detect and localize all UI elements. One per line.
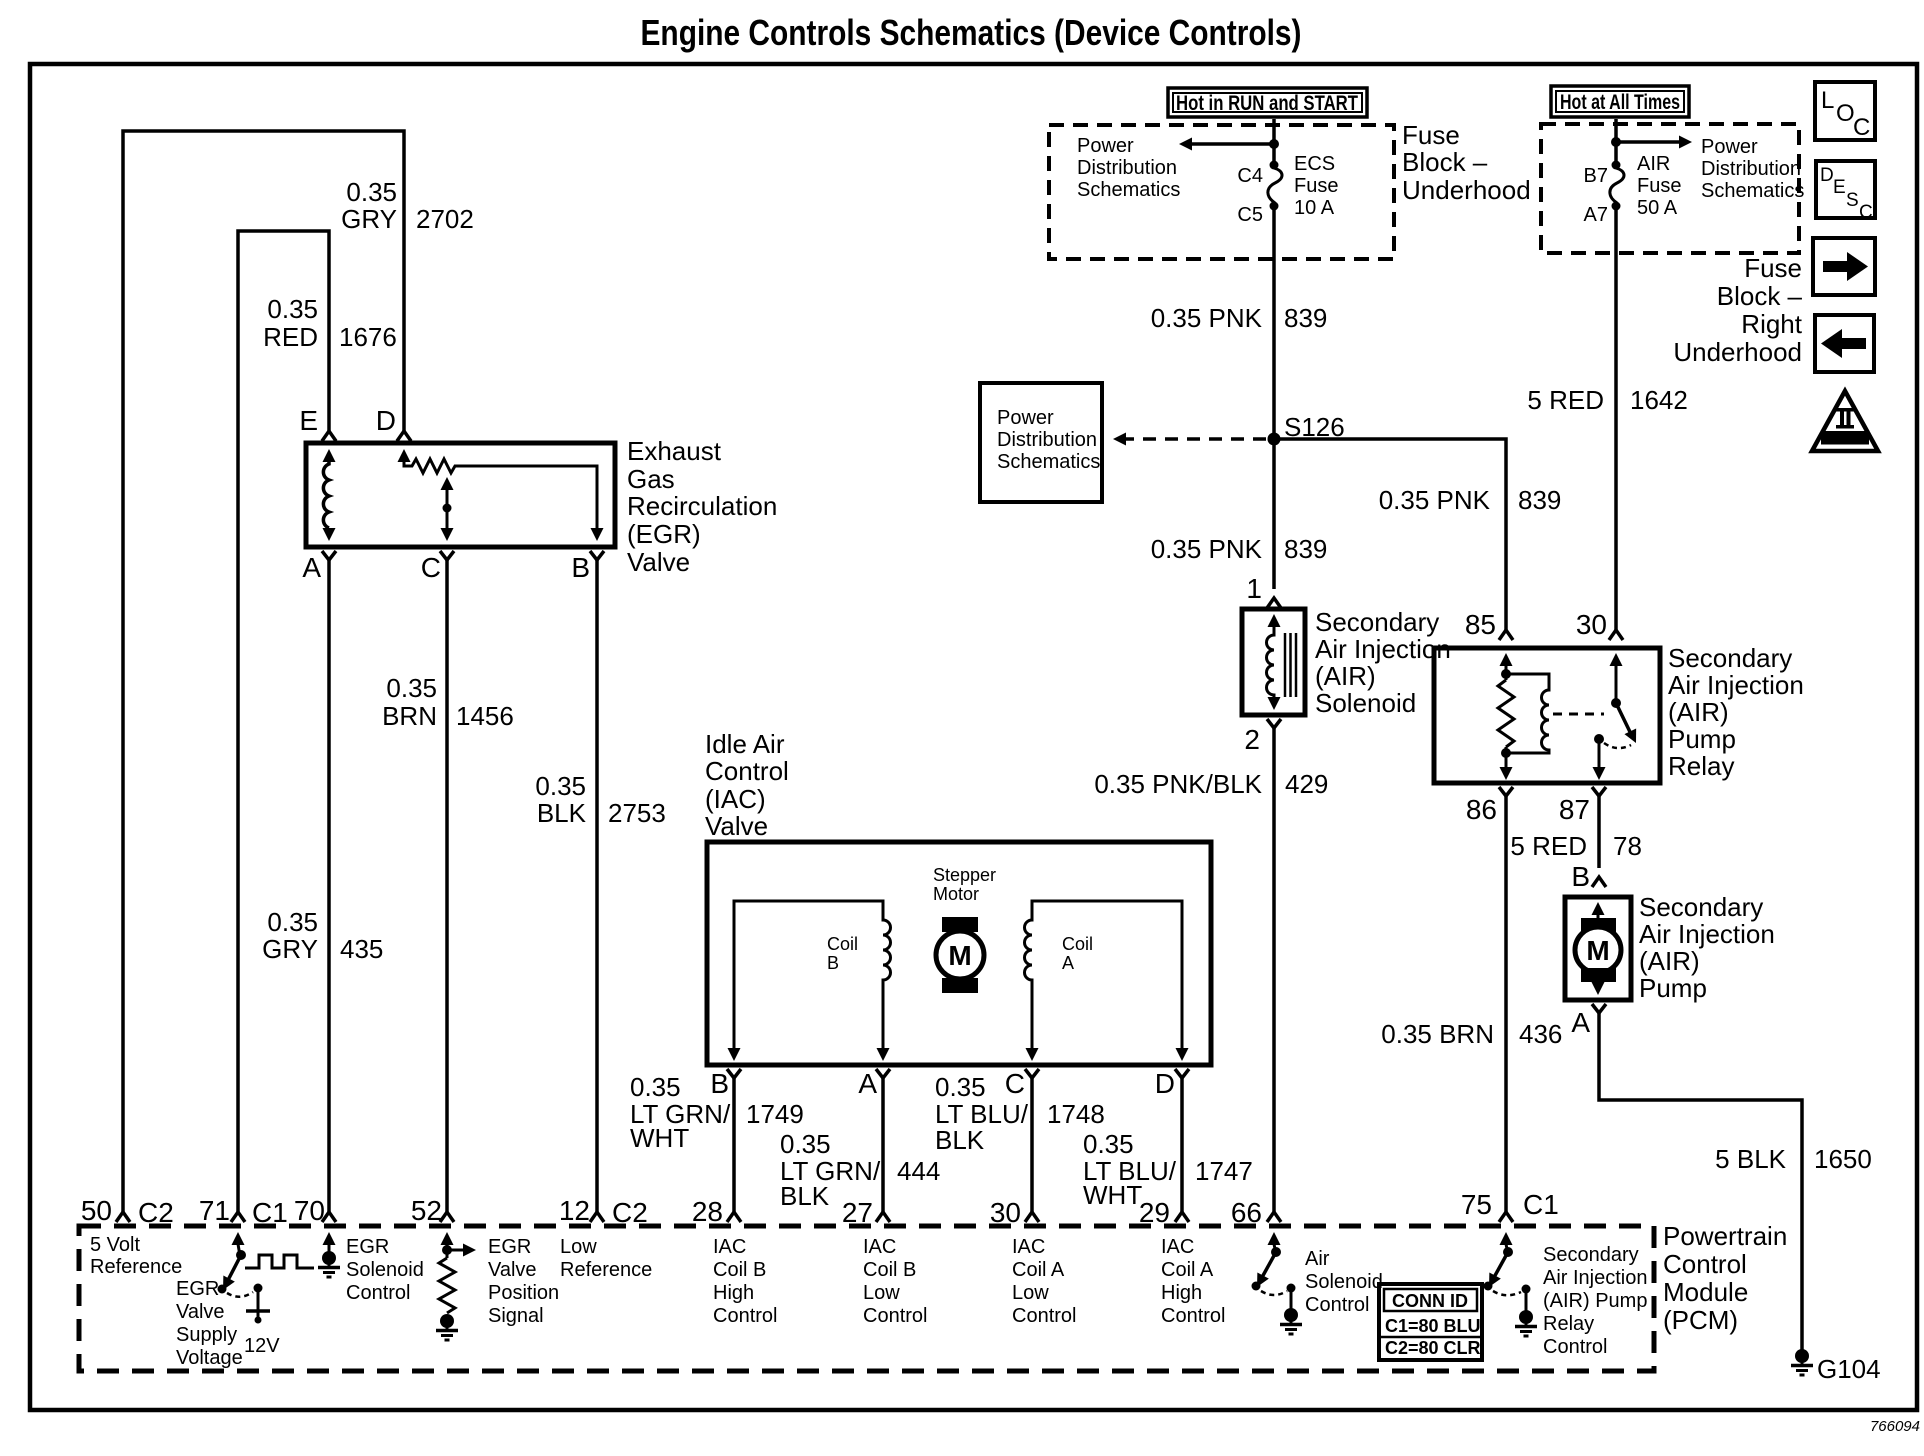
svg-text:Block –: Block – [1402, 147, 1488, 177]
svg-text:B: B [571, 552, 590, 583]
svg-text:A: A [1571, 1007, 1590, 1038]
svg-text:C: C [1853, 114, 1870, 141]
svg-text:D: D [376, 405, 396, 436]
svg-text:C1: C1 [252, 1197, 288, 1228]
Secondary Air Injection (AIR) Solenoid box [1242, 609, 1305, 715]
svg-text:Motor: Motor [933, 884, 979, 904]
AIR Fuse 50 A symbol [1610, 161, 1624, 211]
arrow to Power Distribution Schematics (right) [1616, 140, 1683, 144]
svg-text:Signal: Signal [488, 1305, 544, 1327]
connector PCM pin 66 [1267, 1212, 1281, 1222]
svg-text:Power: Power [1701, 136, 1758, 158]
svg-text:71: 71 [199, 1195, 230, 1226]
svg-text:Pump: Pump [1639, 973, 1707, 1003]
wire 0.35 LT GRN/WHT 1749 (IAC B to PCM pin 28) [732, 1078, 736, 1212]
Fuse Block Right Underhood dashed box (AIR fuse) [1541, 124, 1799, 253]
svg-text:429: 429 [1285, 769, 1328, 799]
svg-text:Coil: Coil [827, 934, 858, 954]
12V supply symbol [254, 1284, 263, 1293]
svg-text:Underhood: Underhood [1402, 175, 1531, 205]
icon OBD II triangle [1812, 391, 1878, 451]
connector PCM pin 30 [1025, 1212, 1039, 1222]
svg-text:1: 1 [1246, 573, 1262, 604]
svg-text:GRY: GRY [341, 204, 397, 234]
svg-text:85: 85 [1465, 609, 1496, 640]
svg-text:A7: A7 [1584, 204, 1608, 226]
svg-text:D: D [1155, 1068, 1175, 1099]
IAC coil B winding [734, 901, 891, 1048]
svg-text:O: O [1836, 100, 1855, 127]
svg-text:Low: Low [1012, 1282, 1049, 1304]
svg-text:G104: G104 [1817, 1354, 1881, 1384]
svg-text:C2=80 CLR: C2=80 CLR [1385, 1338, 1481, 1358]
svg-text:Low: Low [560, 1236, 597, 1258]
svg-text:Engine Controls Schematics (De: Engine Controls Schematics (Device Contr… [641, 12, 1302, 53]
svg-text:87: 87 [1559, 794, 1590, 825]
svg-text:0.35: 0.35 [535, 771, 586, 801]
svg-text:C: C [421, 552, 441, 583]
svg-text:Recirculation: Recirculation [627, 491, 777, 521]
svg-text:C1: C1 [1523, 1189, 1559, 1220]
svg-text:Low: Low [863, 1282, 900, 1304]
svg-text:Control: Control [346, 1282, 410, 1304]
svg-text:Distribution: Distribution [1077, 157, 1177, 179]
svg-text:Hot at All Times: Hot at All Times [1560, 91, 1680, 114]
svg-text:Relay: Relay [1668, 751, 1734, 781]
svg-text:BRN: BRN [382, 701, 437, 731]
air solenoid control switch (pin 66) [1268, 1232, 1281, 1245]
connector EGR pin D [397, 431, 411, 441]
wire 0.35 GRY 2702 (PCM pin 50 to EGR pin D) [123, 131, 404, 1212]
svg-text:66: 66 [1231, 1197, 1262, 1228]
connector PCM pin 12 C2 [590, 1212, 604, 1222]
EGR valve supply voltage switch (pin 71) [232, 1232, 245, 1245]
connector PCM pin 71 C1 [231, 1212, 245, 1222]
svg-text:86: 86 [1466, 794, 1497, 825]
svg-text:50 A: 50 A [1637, 197, 1678, 219]
svg-text:0.35: 0.35 [1083, 1129, 1134, 1159]
svg-text:1676: 1676 [339, 322, 397, 352]
svg-text:75: 75 [1461, 1189, 1492, 1220]
Hot at All Times header box [1551, 86, 1689, 117]
svg-text:0.35 PNK: 0.35 PNK [1379, 485, 1491, 515]
svg-text:C5: C5 [1237, 204, 1263, 226]
svg-text:Block –: Block – [1717, 281, 1803, 311]
svg-text:C2: C2 [612, 1197, 648, 1228]
wire 0.35 RED 1676 (PCM pin 71 to EGR pin E) [238, 231, 329, 1212]
svg-text:5 RED: 5 RED [1510, 831, 1587, 861]
svg-text:Fuse: Fuse [1637, 175, 1681, 197]
svg-text:M: M [948, 940, 971, 971]
svg-text:GRY: GRY [262, 934, 318, 964]
wire S126 to relay pin 85 (0.35 PNK 839) [1274, 439, 1506, 630]
svg-text:Coil B: Coil B [863, 1259, 916, 1281]
wire 5 RED 78 (relay 87 to pump B) [1597, 796, 1601, 868]
svg-text:Control: Control [863, 1305, 927, 1327]
connector PCM pin 29 [1175, 1212, 1189, 1222]
svg-text:Right: Right [1741, 309, 1802, 339]
svg-text:S: S [1846, 190, 1859, 211]
svg-text:5 RED: 5 RED [1527, 385, 1604, 415]
svg-text:Reference: Reference [90, 1256, 182, 1278]
relay coil branch (85 to 86) [1500, 653, 1513, 666]
svg-text:C2: C2 [138, 1197, 174, 1228]
svg-text:5 BLK: 5 BLK [1715, 1144, 1786, 1174]
svg-text:1748: 1748 [1047, 1099, 1105, 1129]
svg-text:Underhood: Underhood [1673, 337, 1802, 367]
wire from Hot at All Times into fuse [1614, 119, 1618, 165]
svg-text:Control: Control [713, 1305, 777, 1327]
svg-text:Reference: Reference [560, 1259, 652, 1281]
svg-text:2: 2 [1244, 724, 1260, 755]
connector EGR pin C [440, 551, 454, 560]
svg-text:1650: 1650 [1814, 1144, 1872, 1174]
Secondary Air Injection (AIR) Pump Relay box [1434, 648, 1660, 783]
svg-text:IAC: IAC [1161, 1236, 1194, 1258]
wire 0.35 GRY 435 (EGR A to PCM pin 70) [327, 560, 331, 1212]
EGR solenoid control ground (pin 70) [323, 1232, 336, 1245]
svg-text:ECS: ECS [1294, 153, 1335, 175]
svg-text:WHT: WHT [630, 1123, 689, 1153]
EGR wiper arm (pin C) [441, 477, 454, 490]
svg-text:10 A: 10 A [1294, 197, 1335, 219]
EGR supply square wave symbol [245, 1255, 314, 1268]
svg-text:BLK: BLK [537, 798, 587, 828]
svg-text:D: D [1820, 165, 1834, 186]
svg-text:(AIR): (AIR) [1668, 697, 1729, 727]
connector PCM pin 27 [876, 1212, 890, 1222]
connector PCM pin 52 [440, 1212, 454, 1222]
svg-text:Solenoid: Solenoid [1305, 1271, 1383, 1293]
wire from Hot in RUN into fuse [1272, 119, 1276, 165]
svg-text:(IAC): (IAC) [705, 784, 766, 814]
svg-text:28: 28 [692, 1196, 723, 1227]
svg-text:Schematics: Schematics [1701, 180, 1804, 202]
connector relay pin 86 [1499, 787, 1513, 796]
node S126 [1268, 433, 1281, 446]
svg-text:L: L [1821, 87, 1834, 114]
svg-text:0.35: 0.35 [267, 294, 318, 324]
svg-text:1642: 1642 [1630, 385, 1688, 415]
wire S126 to AIR solenoid pin 1 (0.35 PNK 839) [1272, 439, 1276, 589]
svg-text:OBD II: OBD II [1829, 433, 1861, 445]
svg-text:B: B [827, 953, 839, 973]
svg-text:Secondary: Secondary [1543, 1244, 1639, 1266]
wire 0.35 PNK 839 (fuse to S126) [1272, 206, 1276, 439]
svg-text:Air Injection: Air Injection [1668, 670, 1804, 700]
icon arrow left box [1815, 315, 1874, 372]
svg-text:B: B [1571, 861, 1590, 892]
svg-text:Valve: Valve [488, 1259, 537, 1281]
svg-text:EGR: EGR [488, 1236, 531, 1258]
Hot in RUN and START header box [1168, 88, 1367, 117]
svg-text:Secondary: Secondary [1315, 607, 1439, 637]
svg-text:Control: Control [1663, 1249, 1747, 1279]
svg-text:IAC: IAC [713, 1236, 746, 1258]
wire 0.35 LT BLU/WHT 1747 (IAC D to PCM pin 29) [1180, 1078, 1184, 1212]
svg-text:Valve: Valve [705, 811, 768, 841]
svg-text:Air Injection: Air Injection [1543, 1267, 1648, 1289]
AIR pump relay control switch (pin 75) [1500, 1232, 1513, 1245]
svg-text:78: 78 [1613, 831, 1642, 861]
svg-text:Control: Control [1161, 1305, 1225, 1327]
svg-text:(AIR): (AIR) [1315, 661, 1376, 691]
icon LOC box [1815, 82, 1875, 140]
AIR pump motor [1592, 902, 1605, 915]
svg-text:0.35: 0.35 [935, 1072, 986, 1102]
svg-text:IAC: IAC [1012, 1236, 1045, 1258]
svg-text:839: 839 [1284, 303, 1327, 333]
Powertrain Control Module (PCM) dashed box [79, 1226, 1654, 1371]
wire 5 RED 1642 (AIR fuse to relay pin 30) [1614, 206, 1618, 630]
svg-text:52: 52 [411, 1195, 442, 1226]
svg-text:Control: Control [1305, 1294, 1369, 1316]
svg-text:E: E [299, 405, 318, 436]
svg-text:BLK: BLK [780, 1181, 830, 1211]
svg-text:839: 839 [1284, 534, 1327, 564]
svg-text:Voltage: Voltage [176, 1347, 243, 1369]
Secondary Air Injection (AIR) Pump box [1565, 897, 1631, 1000]
svg-text:Coil A: Coil A [1161, 1259, 1214, 1281]
svg-text:70: 70 [294, 1195, 325, 1226]
svg-text:E: E [1833, 177, 1846, 198]
Power Distribution Schematics box [980, 383, 1102, 502]
relay switch (30 to 87) [1610, 653, 1623, 666]
connector PCM pin 75 C1 [1499, 1212, 1513, 1222]
wire 5 BLK 1650 (pump A to G104) [1599, 1013, 1802, 1352]
svg-text:Pump: Pump [1668, 724, 1736, 754]
connector IAC pin A [876, 1069, 890, 1078]
svg-text:839: 839 [1518, 485, 1561, 515]
wire 0.35 BRN 436 (relay 86 to PCM pin 75) [1504, 796, 1508, 1212]
Fuse Block Underhood dashed box (ECS fuse) [1049, 125, 1394, 259]
svg-text:(AIR) Pump: (AIR) Pump [1543, 1290, 1647, 1312]
EGR valve position signal resistor (pin 52) [441, 1232, 454, 1245]
svg-text:A: A [302, 552, 321, 583]
svg-text:Position: Position [488, 1282, 559, 1304]
wire 0.35 BLK 2753 (EGR B to PCM pin 12) [595, 560, 599, 1212]
svg-text:C: C [1859, 202, 1873, 223]
wire 0.35 PNK/BLK 429 (solenoid pin 2 to PCM pin 66) [1272, 728, 1276, 1212]
svg-text:(EGR): (EGR) [627, 519, 701, 549]
svg-text:Fuse: Fuse [1402, 120, 1460, 150]
svg-text:29: 29 [1139, 1197, 1170, 1228]
svg-text:0.35 PNK/BLK: 0.35 PNK/BLK [1094, 769, 1262, 799]
connector AIR solenoid pin 2 [1267, 719, 1281, 728]
svg-text:0.35: 0.35 [346, 177, 397, 207]
dashed wire S126 to Power Distribution Schematics box [1122, 437, 1266, 441]
wire 0.35 BRN 1456 (EGR C to PCM pin 52) [445, 560, 449, 1212]
svg-text:Schematics: Schematics [1077, 179, 1180, 201]
svg-text:CONN ID: CONN ID [1392, 1291, 1468, 1311]
svg-text:Powertrain: Powertrain [1663, 1221, 1787, 1251]
svg-text:High: High [713, 1282, 754, 1304]
svg-text:(PCM): (PCM) [1663, 1305, 1738, 1335]
connector pump pin A [1592, 1004, 1606, 1013]
svg-text:Power: Power [997, 407, 1054, 429]
svg-text:27: 27 [842, 1197, 873, 1228]
CONN ID table [1379, 1284, 1482, 1360]
connector EGR pin E [322, 431, 336, 441]
svg-text:436: 436 [1519, 1019, 1562, 1049]
svg-text:(AIR): (AIR) [1639, 946, 1700, 976]
svg-text:0.35: 0.35 [267, 907, 318, 937]
svg-text:M: M [1586, 935, 1609, 966]
svg-text:Schematics: Schematics [997, 451, 1100, 473]
EGR valve box [306, 443, 615, 547]
svg-text:2753: 2753 [608, 798, 666, 828]
svg-text:EGR: EGR [176, 1278, 219, 1300]
svg-text:Coil B: Coil B [713, 1259, 766, 1281]
AIR solenoid coil [1268, 614, 1281, 627]
svg-text:AIR: AIR [1637, 153, 1670, 175]
svg-text:Solenoid: Solenoid [346, 1259, 424, 1281]
connector relay pin 87 [1592, 787, 1606, 796]
svg-text:Idle Air: Idle Air [705, 729, 785, 759]
svg-text:WHT: WHT [1083, 1180, 1142, 1210]
svg-text:C: C [1005, 1068, 1025, 1099]
svg-text:Air Injection: Air Injection [1639, 919, 1775, 949]
connector EGR pin B [590, 551, 604, 560]
relay coil (parallel winding) [1506, 674, 1549, 753]
connector PCM pin 70 [322, 1212, 336, 1222]
svg-text:Fuse: Fuse [1294, 175, 1338, 197]
svg-text:Coil: Coil [1062, 934, 1093, 954]
svg-text:B7: B7 [1584, 165, 1608, 187]
svg-text:Stepper: Stepper [933, 865, 996, 885]
svg-text:Distribution: Distribution [1701, 158, 1801, 180]
svg-text:EGR: EGR [346, 1236, 389, 1258]
svg-text:766094: 766094 [1870, 1418, 1920, 1435]
connector IAC pin C [1025, 1069, 1039, 1078]
svg-text:0.35 PNK: 0.35 PNK [1151, 534, 1263, 564]
svg-text:Air Injection: Air Injection [1315, 634, 1451, 664]
svg-text:Valve: Valve [627, 547, 690, 577]
svg-text:Solenoid: Solenoid [1315, 688, 1416, 718]
EGR solenoid coil (E to A) [323, 449, 336, 462]
svg-text:B: B [710, 1068, 729, 1099]
svg-text:Hot in RUN and START: Hot in RUN and START [1176, 92, 1358, 115]
svg-text:30: 30 [1576, 609, 1607, 640]
svg-text:50: 50 [81, 1195, 112, 1226]
svg-text:Supply: Supply [176, 1324, 237, 1346]
svg-text:444: 444 [897, 1156, 940, 1186]
svg-text:Gas: Gas [627, 464, 675, 494]
connector IAC pin B [727, 1069, 741, 1078]
wire 0.35 LT BLU/BLK 1748 (IAC C to PCM pin 30) [1030, 1078, 1034, 1212]
svg-text:0.35: 0.35 [780, 1129, 831, 1159]
svg-text:0.35 PNK: 0.35 PNK [1151, 303, 1263, 333]
svg-text:12: 12 [559, 1195, 590, 1226]
connector IAC pin D [1175, 1069, 1189, 1078]
svg-text:C1=80 BLU: C1=80 BLU [1385, 1316, 1481, 1336]
svg-text:Control: Control [1012, 1305, 1076, 1327]
junction dot [1611, 137, 1621, 147]
EGR potentiometer resistor (D to B) [398, 449, 411, 462]
svg-text:BLK: BLK [935, 1125, 985, 1155]
svg-text:1749: 1749 [746, 1099, 804, 1129]
svg-text:1456: 1456 [456, 701, 514, 731]
ECS Fuse 10 A symbol [1268, 161, 1282, 211]
svg-text:2702: 2702 [416, 204, 474, 234]
junction dot [1269, 139, 1279, 149]
svg-text:Power: Power [1077, 135, 1134, 157]
svg-text:0.35: 0.35 [630, 1072, 681, 1102]
svg-text:Exhaust: Exhaust [627, 436, 722, 466]
svg-text:Secondary: Secondary [1639, 892, 1763, 922]
svg-text:Module: Module [1663, 1277, 1748, 1307]
icon DESC box [1816, 161, 1875, 218]
relay dashed actuator link [1553, 713, 1604, 716]
svg-text:12V: 12V [244, 1335, 280, 1357]
connector PCM pin 50 C2 [116, 1212, 130, 1222]
IAC coil A winding [1025, 901, 1183, 1048]
svg-text:Control: Control [705, 756, 789, 786]
svg-text:0.35 BRN: 0.35 BRN [1381, 1019, 1494, 1049]
svg-text:1747: 1747 [1195, 1156, 1253, 1186]
svg-text:A: A [858, 1068, 877, 1099]
svg-text:5 Volt: 5 Volt [90, 1234, 140, 1256]
svg-text:Valve: Valve [176, 1301, 225, 1323]
connector EGR pin A [322, 551, 336, 560]
svg-text:0.35: 0.35 [386, 673, 437, 703]
svg-text:High: High [1161, 1282, 1202, 1304]
icon arrow right box [1813, 238, 1875, 295]
svg-text:30: 30 [990, 1197, 1021, 1228]
svg-text:435: 435 [340, 934, 383, 964]
connector PCM pin 28 [727, 1212, 741, 1222]
arrow to Power Distribution Schematics [1188, 142, 1274, 146]
svg-text:Coil A: Coil A [1012, 1259, 1065, 1281]
IAC valve box [707, 842, 1211, 1065]
svg-text:Control: Control [1543, 1336, 1607, 1358]
svg-text:Air: Air [1305, 1248, 1330, 1270]
svg-text:Distribution: Distribution [997, 429, 1097, 451]
ground G104 [1791, 1349, 1813, 1375]
svg-text:IAC: IAC [863, 1236, 896, 1258]
wire 0.35 LT GRN/BLK 444 (IAC A to PCM pin 27) [881, 1078, 885, 1212]
svg-text:RED: RED [263, 322, 318, 352]
svg-text:A: A [1062, 953, 1074, 973]
svg-text:C4: C4 [1237, 165, 1263, 187]
svg-text:Relay: Relay [1543, 1313, 1594, 1335]
svg-text:Secondary: Secondary [1668, 643, 1792, 673]
svg-text:Fuse: Fuse [1744, 253, 1802, 283]
